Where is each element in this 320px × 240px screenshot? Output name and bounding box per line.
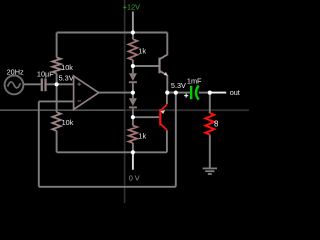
diode D1 [129, 73, 137, 82]
resistor R3 1k top-middle [129, 39, 138, 60]
wire - input [39, 100, 74, 102]
wire 0V up to PNP collector [166, 130, 168, 152]
wire 0V antenna stub [132, 152, 134, 169]
op-amp plus input mark [77, 82, 81, 86]
wire from left edge at y=110 [0, 109, 125, 111]
node D junction [131, 115, 135, 119]
resistor R4 1k bottom-middle [129, 126, 137, 143]
node A junction [55, 82, 59, 86]
wire out stub [210, 92, 226, 94]
transistor Q2 PNP red [160, 105, 167, 131]
wire rail to 1k [132, 33, 134, 40]
wire node A column [56, 73, 58, 112]
svg-text:out: out [230, 88, 240, 97]
svg-text:10µF: 10µF [37, 70, 54, 79]
wire feedback bottom [39, 186, 176, 188]
wire NPN emitter down [166, 75, 168, 93]
resistor R5 8 ohm speaker [205, 113, 214, 135]
transistor Q1 NPN [160, 55, 168, 76]
wire node D to 1k [132, 117, 134, 125]
op-amp minus input mark [77, 100, 81, 102]
node speaker junction [208, 91, 212, 95]
wire node B to diode D2 [132, 93, 134, 99]
wire 1k to 0V node [132, 143, 134, 152]
svg-text:5.3V: 5.3V [171, 81, 186, 90]
wire NPN collector up [166, 33, 168, 56]
wire lower 10k to 0V [56, 131, 58, 153]
svg-text:1k: 1k [138, 46, 146, 55]
wire PNP emitter up [166, 93, 168, 105]
wire feedback right up [175, 93, 177, 187]
capacitor C2 1mF electrolytic [191, 86, 199, 100]
svg-text:1mF: 1mF [187, 77, 202, 86]
node emitter junction [165, 91, 169, 95]
capacitor plus sign [184, 94, 188, 98]
wire 0V rail [57, 151, 167, 153]
resistor R2 10k bottom-left [52, 112, 60, 131]
wire speaker bottom [209, 135, 211, 168]
svg-text:1k: 1k [138, 132, 146, 141]
wire capacitor to op-amp + [47, 83, 74, 85]
svg-text:0 V: 0 V [129, 173, 140, 182]
AC source V1 20Hz [5, 76, 24, 95]
node B op-amp out junction [131, 91, 135, 95]
wire speaker top [209, 93, 211, 113]
wire source to capacitor [23, 83, 40, 85]
node E 0V junction [131, 150, 135, 154]
divider dark horizontal line right [125, 109, 249, 111]
wire diode D1 to node B [132, 83, 134, 93]
wire emitter node to capacitor [167, 92, 190, 94]
wire NPN base [133, 65, 159, 67]
op-amp U1 [74, 76, 99, 109]
svg-text:20Hz: 20Hz [7, 67, 24, 76]
resistor R1 10k top-left [52, 58, 60, 74]
ground symbol [203, 168, 217, 174]
capacitor C1 10uF plates [42, 78, 46, 91]
svg-text:+12V: +12V [123, 2, 140, 11]
diode D2 [129, 98, 137, 107]
svg-text:5.3V: 5.3V [59, 73, 74, 82]
svg-text:10k: 10k [62, 118, 74, 127]
wire diode D2 to node D [132, 109, 134, 118]
wire feedback left down [38, 101, 40, 186]
wire +12V rail [57, 32, 168, 34]
wire capacitor to speaker node [199, 92, 210, 94]
wire 1k to node C [132, 60, 134, 66]
node feedback junction [174, 91, 178, 95]
node C junction [131, 64, 135, 68]
wire node C to diode D1 [132, 66, 134, 73]
wire +12V stub [132, 12, 134, 33]
wire PNP base [133, 116, 159, 118]
wire rail to top 10k [56, 33, 58, 58]
node +12V junction [131, 30, 135, 34]
divider dark vertical line [124, 0, 126, 203]
wire op-amp output [99, 92, 133, 94]
svg-text:8: 8 [214, 120, 219, 129]
svg-text:10k: 10k [61, 63, 73, 72]
